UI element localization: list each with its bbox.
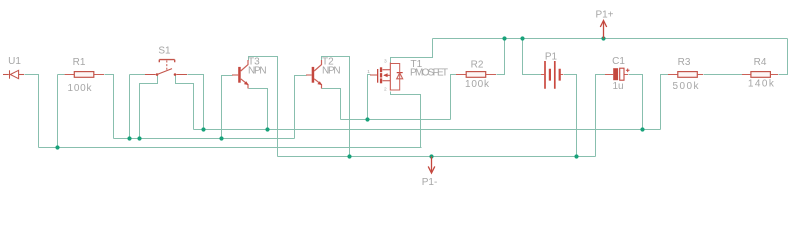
svg-text:R1: R1	[73, 57, 86, 68]
svg-text:100k: 100k	[68, 83, 93, 94]
svg-text:P1: P1	[545, 52, 558, 63]
wires group	[25, 39, 788, 157]
node P1minus/B1	[429, 154, 433, 158]
pmosfet T1	[367, 59, 403, 93]
node S1a/bus138	[127, 136, 131, 140]
resistor R4	[742, 72, 778, 78]
wire T2 base	[295, 76, 307, 139]
diode U1	[3, 70, 24, 78]
wire S1 right pin	[188, 75, 204, 130]
svg-text:PMOSFET: PMOSFET	[410, 68, 448, 79]
svg-text:R4: R4	[754, 57, 767, 68]
wire R1 right down	[105, 75, 114, 139]
resistor R3	[668, 72, 703, 78]
power flag P1-	[428, 157, 435, 174]
svg-text:C1: C1	[612, 56, 625, 67]
svg-text:P1+: P1+	[595, 10, 613, 21]
svg-text:140k: 140k	[748, 79, 775, 90]
capacitor C1	[605, 68, 630, 80]
battery P1	[541, 61, 563, 89]
node C1r/bus129	[640, 127, 644, 131]
svg-text:U1: U1	[8, 56, 21, 67]
svg-text:1: 1	[367, 69, 370, 75]
wire R4 right up	[779, 39, 788, 75]
node P1right/B1	[574, 154, 578, 158]
svg-text:2: 2	[384, 87, 387, 93]
wire T3 emitter	[249, 89, 268, 130]
wire bus 129	[194, 129, 661, 131]
node T1gate/bus119	[365, 117, 369, 121]
node P1plus/topbus	[601, 36, 605, 40]
wire S1 left pin	[130, 75, 146, 139]
node S1rp/bus129	[201, 127, 205, 131]
node T3base/bus138	[219, 136, 223, 140]
wire R2 right up	[497, 39, 505, 75]
wire top bus	[433, 38, 788, 40]
resistor R2	[456, 72, 496, 78]
svg-text:R3: R3	[678, 57, 691, 68]
wire P1 left up	[523, 39, 542, 75]
wire C1 left down	[596, 75, 606, 157]
wire C1 right down	[629, 75, 643, 130]
svg-text:NPN: NPN	[248, 66, 267, 77]
svg-text:100k: 100k	[465, 79, 490, 90]
wire T3 collector top	[249, 57, 278, 157]
wire T1 source to top bus	[391, 39, 433, 63]
svg-text:S1: S1	[158, 46, 171, 57]
node T2col/B1	[347, 154, 351, 158]
wire bus 119	[341, 119, 451, 121]
resistor R1	[65, 72, 104, 78]
wire T3 base	[222, 76, 233, 139]
svg-text:500k: 500k	[673, 81, 700, 92]
svg-text:R2: R2	[471, 59, 484, 70]
wire bus H1 bottom	[39, 147, 422, 149]
wire bus 138	[114, 138, 295, 140]
wire U1 right to H1	[25, 75, 39, 148]
wire R1 left down	[58, 75, 65, 148]
wire R3 to R4	[704, 74, 743, 76]
wire P1 right down	[564, 75, 577, 157]
wire T1 drain down	[391, 92, 421, 148]
svg-text:3: 3	[384, 59, 387, 65]
wire S1 left contact under	[140, 76, 158, 139]
wire bus B1 bottom	[278, 156, 596, 158]
node P1left/topbus	[520, 36, 524, 40]
wire T1 gate down	[368, 75, 371, 120]
wire R3 left down	[661, 75, 669, 130]
node T3em/bus129	[265, 127, 269, 131]
power flag P1+	[600, 21, 606, 39]
wire T2 emitter	[322, 89, 341, 120]
wire T2 collector top	[322, 57, 350, 157]
wire R2 left	[451, 75, 457, 120]
transistor T3	[232, 60, 249, 89]
wire S1 right contact under	[176, 76, 194, 130]
switch S1	[145, 60, 187, 76]
node R2/topbus	[502, 36, 506, 40]
transistor T2	[306, 60, 322, 89]
node R1-left/H1	[55, 145, 59, 149]
svg-text:NPN: NPN	[322, 66, 341, 77]
node S1b/bus138	[137, 136, 141, 140]
svg-text:P1-: P1-	[422, 177, 438, 188]
svg-text:1u: 1u	[612, 81, 623, 92]
